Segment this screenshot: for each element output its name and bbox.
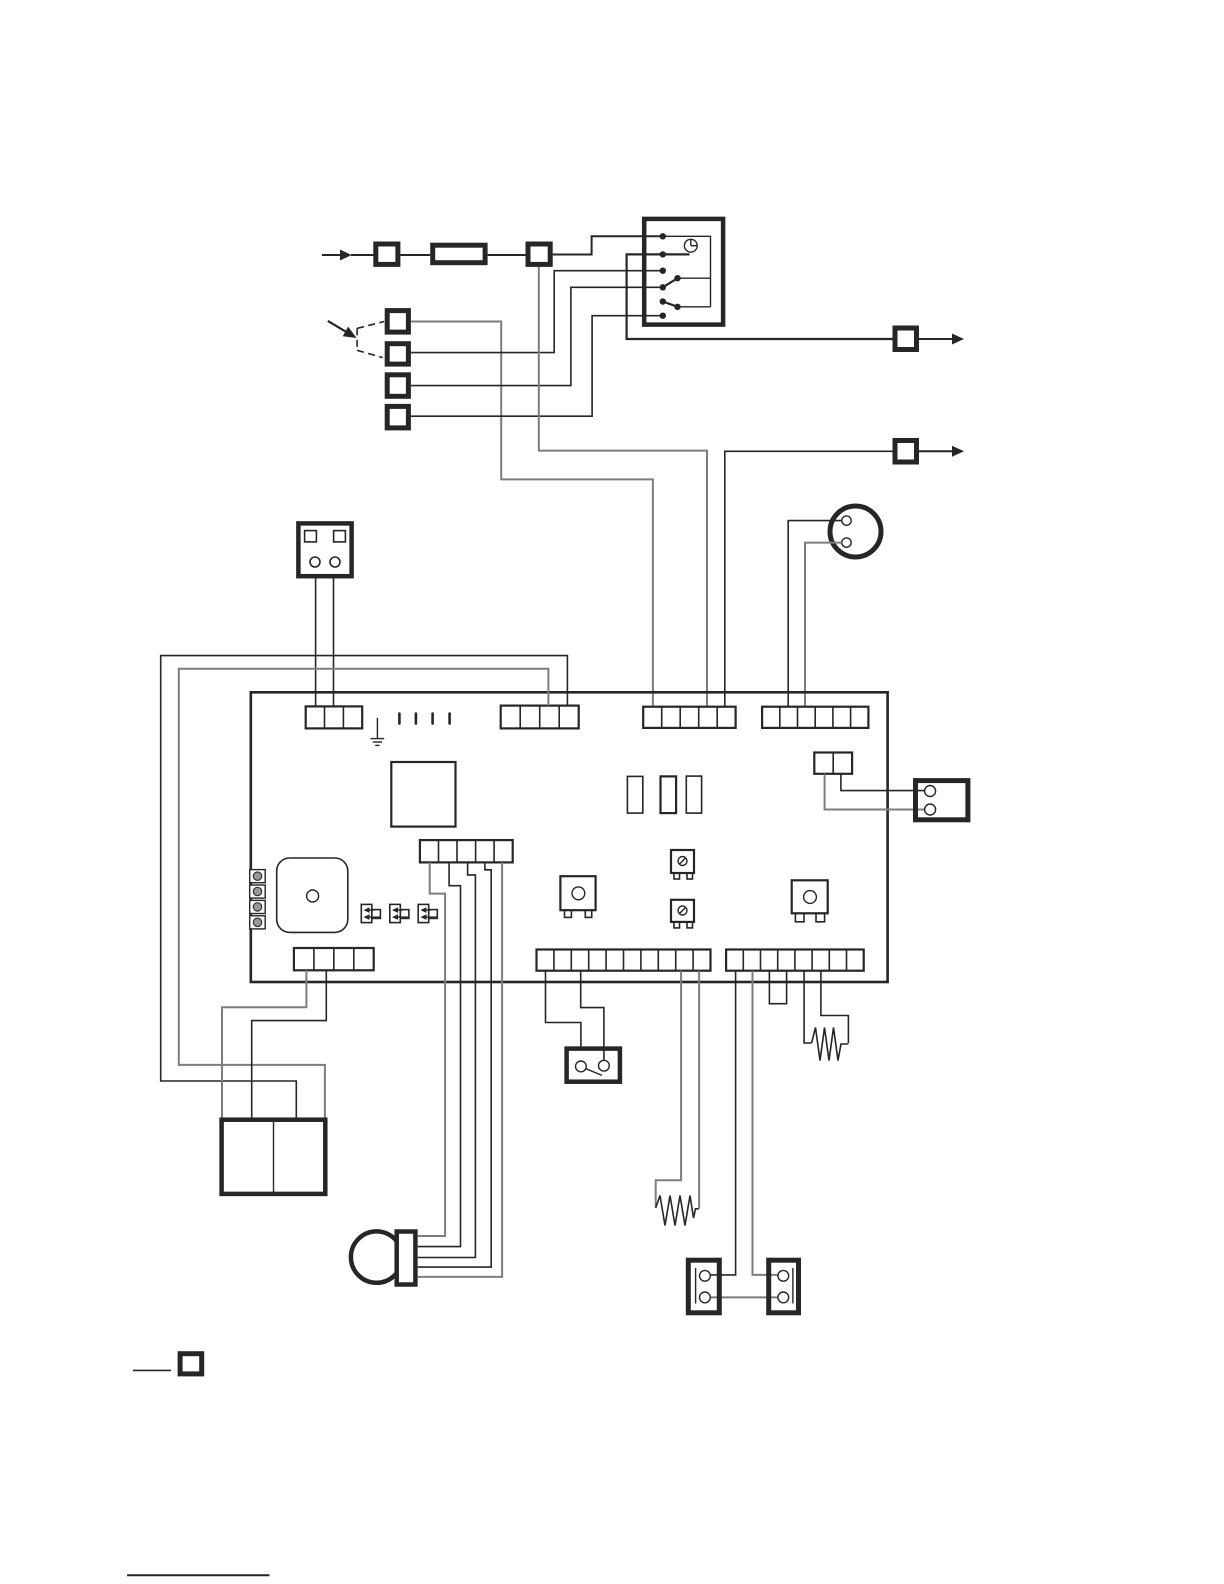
dashed fan-out lines: [356, 328, 358, 350]
board connector G (10 cells): [537, 950, 711, 971]
output box 2: [895, 441, 917, 463]
aux connector (2 cells): [814, 753, 852, 774]
LED 2: [250, 885, 266, 898]
sensor device 1: [560, 876, 595, 910]
supply arrow to boiler terminals: [328, 321, 346, 332]
wire mains input: [322, 254, 341, 256]
LED 4: [250, 916, 266, 929]
room thermostat box: [298, 523, 351, 576]
wire connector H1 to gas valve left: [710, 971, 735, 1275]
wire output 2 arrow: [919, 450, 953, 452]
fuse F1: [433, 245, 485, 263]
wire fuse to terminal N: [488, 254, 526, 256]
trimmer RV2: [671, 900, 694, 922]
buzzer: [277, 858, 348, 932]
wire connector B3 to mains box (left loop): [179, 669, 549, 1120]
wire connector G9 to heater resistor (left lead): [656, 971, 681, 1207]
terminal box L: [376, 244, 398, 264]
control board outline: [251, 692, 888, 982]
wire connector E2 to fan: [418, 862, 461, 1246]
arrow output 2: [952, 446, 964, 457]
gas valve connector right: [769, 1260, 799, 1313]
wire connector F2 to mains box: [252, 970, 327, 1119]
sensor resistor (right): [812, 1028, 849, 1061]
earth symbol: [376, 718, 378, 739]
wire room stat to board connector A: [315, 579, 317, 707]
wire connector E4 to fan: [418, 862, 492, 1267]
gas valve connector left: [688, 1260, 719, 1313]
wire between gas valve pins: [710, 1296, 779, 1298]
wire connector B4 to mains box (left loop): [161, 656, 568, 1120]
wire terminal N to timer contact 1: [553, 236, 663, 254]
relay 3: [686, 776, 701, 813]
wire connector E5 to fan: [418, 862, 502, 1277]
footer rule: [127, 1574, 269, 1576]
wire sensor pin 1 to board connector D: [788, 521, 842, 708]
wire board connector C to output 2: [725, 451, 893, 707]
wire connector F1 to mains box: [222, 970, 306, 1119]
wire to terminal L: [351, 254, 374, 256]
external 2-pin connector: [916, 781, 968, 820]
board connector B (4 cells): [501, 706, 579, 729]
arrow mains input: [340, 250, 352, 261]
arrow output 1: [952, 334, 964, 345]
relay 1: [627, 776, 642, 813]
LED 3: [250, 900, 266, 913]
jumper JP1: [361, 904, 372, 922]
board connector H (8 cells): [726, 950, 864, 971]
boiler terminal box 3: [387, 375, 408, 397]
boiler terminal box 2: [387, 344, 408, 364]
legend wire sample: [133, 1369, 171, 1371]
wire connector G10 to heater resistor (right lead): [698, 971, 700, 1209]
wire connector G1 to flow switch: [546, 971, 581, 1049]
mains connector (2 cells): [222, 1120, 326, 1194]
wire connector H2 to gas valve right: [753, 971, 779, 1275]
jumper JP3: [418, 904, 429, 922]
board connector A (3 cells): [306, 706, 363, 728]
wire sensor pin 2 to board connector D: [805, 543, 842, 708]
output box 1: [895, 328, 917, 350]
boiler terminal box 1: [387, 311, 408, 333]
wire output 1 arrow: [919, 338, 953, 340]
outdoor sensor pins: [842, 516, 851, 525]
wire aux cell2 to external connector pin 1: [841, 774, 925, 791]
trimmer RV1: [671, 850, 694, 873]
wire connector E1 to fan: [418, 862, 445, 1236]
wire timer contact 2 to output 1: [627, 254, 893, 339]
legend box: [180, 1354, 202, 1374]
timer contact dots: [660, 233, 666, 239]
outdoor sensor body: [830, 506, 881, 557]
board connector C (5 cells): [643, 707, 735, 728]
wire connector H5 to sensor resistor: [804, 971, 812, 1043]
LED 1: [250, 870, 266, 883]
timer internal wiring: [663, 236, 711, 306]
relay 2: [661, 776, 677, 813]
flow switch box: [567, 1049, 620, 1082]
board connector F (4 cells): [294, 948, 374, 970]
wire sensor resistor to connector H6: [821, 971, 849, 1043]
sensor device 2: [792, 880, 828, 913]
heater resistor (bottom): [656, 1196, 699, 1226]
timer switch arm 2: [663, 302, 678, 307]
fan connector block: [397, 1232, 416, 1285]
wire boiler box2 to timer contact 3: [411, 271, 663, 353]
board pins: [398, 714, 401, 724]
room thermostat contacts: [305, 531, 317, 542]
timer switch arm 1: [663, 278, 678, 287]
jumper JP2: [390, 904, 401, 922]
timer box: [644, 219, 723, 325]
timer clock symbol: [684, 239, 697, 252]
fan motor body: [351, 1231, 402, 1282]
wire L to fuse: [400, 254, 430, 256]
wire terminal N down to board connector C: [539, 267, 707, 708]
wire boiler box3 to timer contact 4: [411, 287, 663, 385]
wire aux cell1 to external connector pin 2: [825, 774, 925, 810]
flow switch arm: [586, 1069, 602, 1076]
boiler terminal box 4: [387, 406, 408, 428]
wire connector E3 to fan: [418, 862, 476, 1257]
terminal box N: [528, 244, 550, 264]
board connector D (6 cells): [762, 707, 868, 728]
link between connector H3 and H4: [769, 971, 786, 1004]
wire connector G3 to flow switch: [581, 971, 604, 1061]
wire boiler box1 to board connector C: [411, 322, 653, 708]
board connector E (5 cells): [420, 840, 513, 862]
transformer: [391, 762, 455, 827]
wire boiler box4 to timer contact 6: [411, 316, 663, 417]
